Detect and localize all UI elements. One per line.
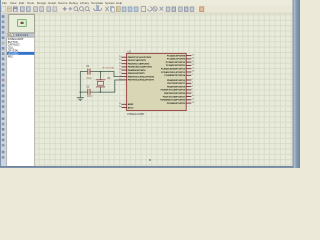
svg-text:PD0/RXD/PCINT16: PD0/RXD/PCINT16 — [167, 80, 186, 82]
preview window — [9, 15, 35, 33]
node junction at ground tap — [80, 91, 82, 93]
svg-text:ATMEGA328P: ATMEGA328P — [127, 112, 145, 116]
svg-text:PD1/TXD/PCINT17: PD1/TXD/PCINT17 — [167, 83, 186, 85]
preview green sheet — [18, 20, 27, 27]
svg-text:PD5/T1/OC0B/PCINT21: PD5/T1/OC0B/PCINT21 — [163, 96, 186, 98]
svg-text:HF CRYSTAL: HF CRYSTAL — [102, 66, 115, 69]
svg-text:C1: C1 — [86, 64, 90, 68]
svg-text:View: View — [10, 1, 17, 5]
capacitor C2 — [86, 85, 93, 98]
right pin stubs PD0-PD7 — [186, 80, 191, 103]
svg-text:AVCC: AVCC — [128, 106, 134, 109]
svg-text:Help: Help — [116, 1, 123, 5]
svg-text:File: File — [2, 1, 7, 5]
svg-text:PB6/TOSC1/XTAL1/PCINT6: PB6/TOSC1/XTAL1/PCINT6 — [128, 75, 155, 78]
left pin names — [128, 57, 155, 109]
svg-text:22pF: 22pF — [87, 96, 93, 98]
svg-text:22pF: 22pF — [86, 78, 92, 80]
right pin names — [160, 54, 185, 105]
wire: net XTAL1 left vertical + top horizontal — [80, 72, 87, 93]
MCU U1 body — [127, 53, 187, 110]
left tool strip — [1, 13, 7, 166]
svg-text:Graph: Graph — [48, 1, 57, 5]
svg-text:PC4/ADC4/SDA/PCINT12: PC4/ADC4/SDA/PCINT12 — [161, 68, 186, 71]
svg-text:X1: X1 — [107, 76, 111, 80]
object selector panel background — [7, 13, 36, 166]
svg-text:PC0/ADC0/PCINT8: PC0/ADC0/PCINT8 — [167, 54, 186, 57]
svg-text:PC2/ADC2/PCINT10: PC2/ADC2/PCINT10 — [166, 61, 186, 64]
right pin numbers — [192, 54, 195, 104]
svg-text:PC1/ADC1/PCINT9: PC1/ADC1/PCINT9 — [167, 58, 186, 61]
wire: net XTAL2 from C2 to chip pin PB7 — [90, 80, 122, 92]
svg-text:Source: Source — [58, 1, 68, 5]
svg-text:P: P — [8, 33, 10, 37]
top toolbar — [1, 5, 293, 13]
svg-text:PB3/MOSI/OC2A/PCINT3: PB3/MOSI/OC2A/PCINT3 — [128, 66, 153, 69]
svg-text:PB0/ICP1/CLKO/PCINT0: PB0/ICP1/CLKO/PCINT0 — [128, 57, 152, 59]
svg-text:PD6/AIN0/OC0A/PCINT22: PD6/AIN0/OC0A/PCINT22 — [160, 99, 185, 102]
svg-text:PD2/INT0/PCINT18: PD2/INT0/PCINT18 — [167, 86, 186, 88]
svg-text:Tools: Tools — [27, 1, 35, 5]
origin marker — [149, 159, 151, 161]
svg-text:Design: Design — [37, 1, 47, 5]
svg-text:System: System — [105, 1, 116, 5]
svg-text:PB5/SCK/PCINT5: PB5/SCK/PCINT5 — [128, 73, 146, 75]
window chrome background — [0, 0, 300, 168]
svg-text:Template: Template — [91, 1, 104, 5]
wire: crystal top lead — [100, 72, 102, 80]
wire: crystal bottom lead — [99, 87, 101, 92]
svg-text:PB7/TOSC2/XTAL2/PCINT7: PB7/TOSC2/XTAL2/PCINT7 — [128, 79, 155, 82]
menu bar — [1, 0, 293, 5]
svg-text:PB2/SS/OC1B/PCINT2: PB2/SS/OC1B/PCINT2 — [128, 64, 150, 66]
svg-text:PD4/T0/XCK/PCINT20: PD4/T0/XCK/PCINT20 — [164, 92, 186, 95]
node junction on XTAL2 net — [100, 91, 102, 93]
schematic canvas — [35, 13, 292, 166]
svg-text:PB4/MISO/PCINT4: PB4/MISO/PCINT4 — [128, 69, 147, 72]
wire: net XTAL2 bottom horizontal — [80, 91, 87, 93]
svg-text:Library: Library — [80, 1, 90, 5]
left pin stubs PB0-PB7, AREF, AVCC — [122, 57, 127, 107]
svg-text:PD3/INT1/OC2B/PCINT19: PD3/INT1/OC2B/PCINT19 — [161, 90, 186, 92]
svg-text:PC6/RESET/PCINT14: PC6/RESET/PCINT14 — [164, 74, 185, 77]
left pin numbers — [119, 56, 122, 108]
svg-text:PC3/ADC3/PCINT11: PC3/ADC3/PCINT11 — [166, 64, 186, 67]
svg-text:RES: RES — [8, 55, 13, 58]
svg-text:PC5/ADC5/SCL/PCINT13: PC5/ADC5/SCL/PCINT13 — [161, 71, 186, 74]
right pin stubs PC0-PC6 — [186, 56, 191, 76]
device list — [7, 37, 35, 166]
crystal X1 — [96, 66, 115, 87]
svg-text:Edit: Edit — [19, 1, 24, 5]
svg-text:AREF: AREF — [128, 103, 134, 106]
svg-text:C2: C2 — [86, 85, 90, 89]
right window strip — [293, 0, 300, 168]
node junction on XTAL1 net — [100, 71, 102, 73]
svg-text:Debug: Debug — [69, 1, 78, 5]
wire: net XTAL1 from C1 to chip pin PB6 — [90, 72, 122, 77]
P/L buttons + DEVICES header — [7, 33, 10, 37]
capacitor C1 — [86, 64, 92, 80]
svg-text:U1: U1 — [128, 50, 132, 54]
ground — [77, 92, 83, 100]
svg-text:PB1/OC1A/PCINT1: PB1/OC1A/PCINT1 — [128, 59, 147, 62]
bottom window strip — [0, 166, 293, 168]
svg-text:PD7/AIN1/PCINT23: PD7/AIN1/PCINT23 — [167, 102, 186, 105]
svg-text:DEVICES: DEVICES — [16, 34, 29, 37]
